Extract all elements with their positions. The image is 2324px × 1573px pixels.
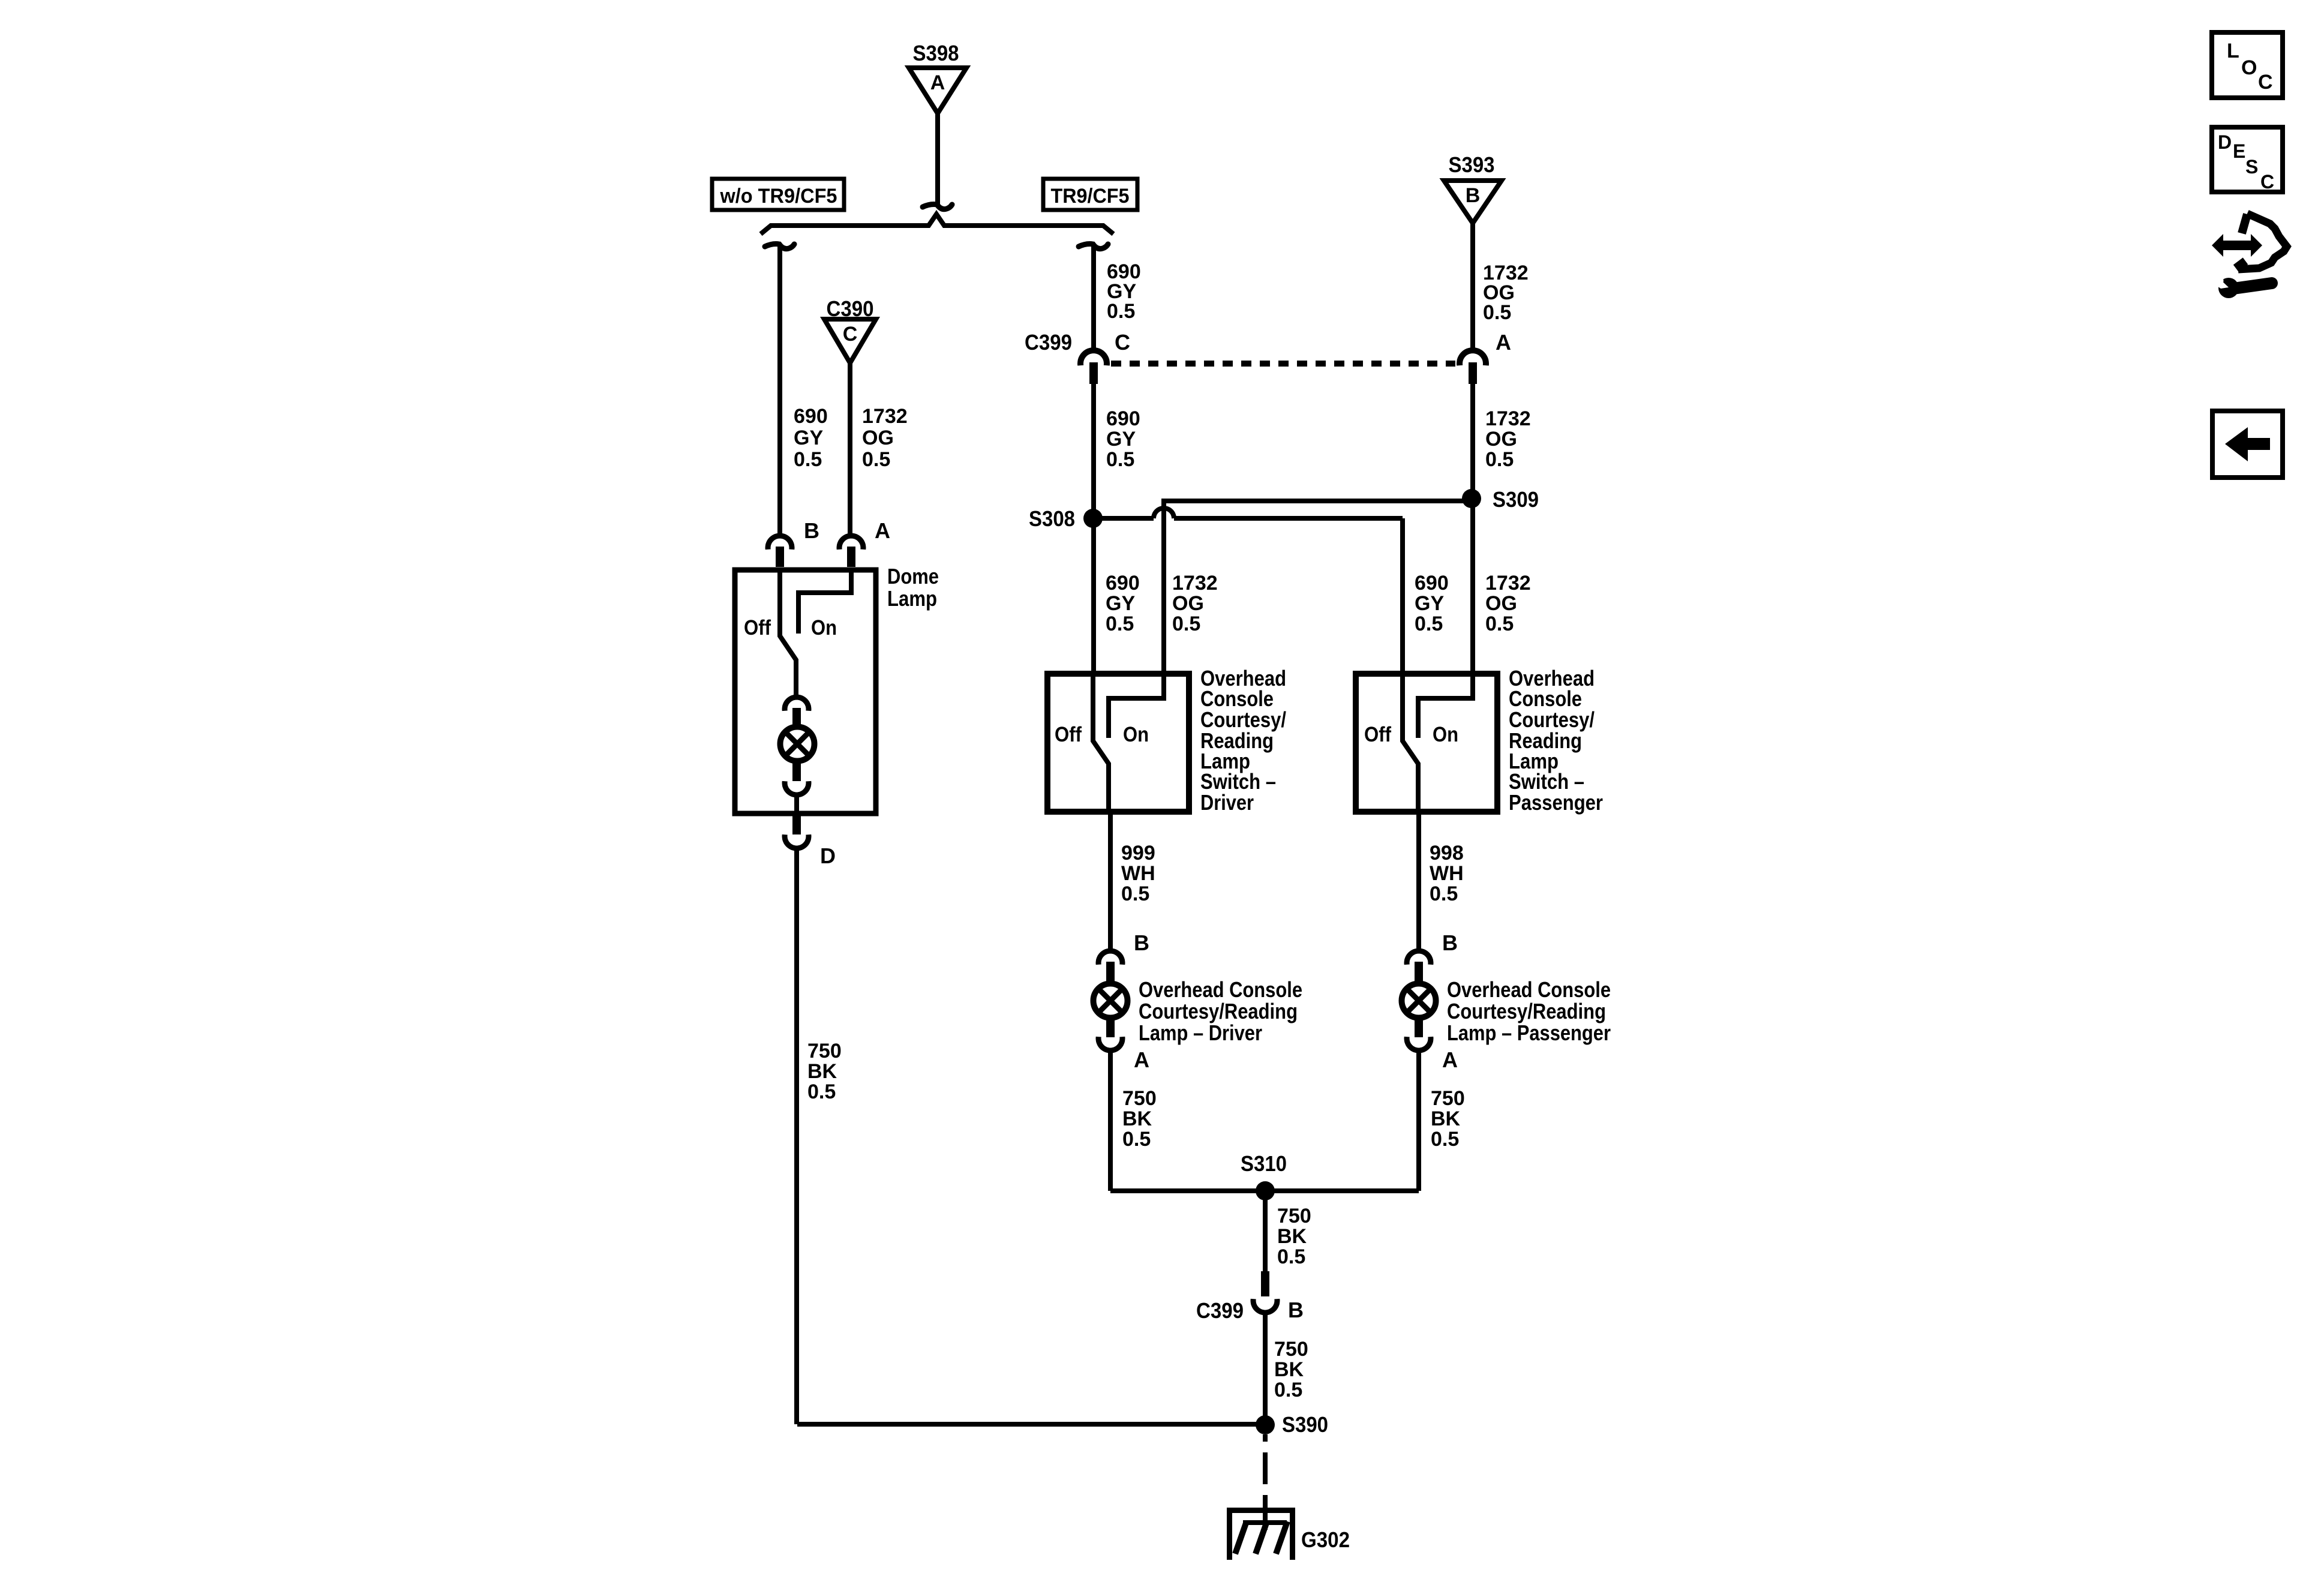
svg-text:0.5: 0.5: [1415, 613, 1443, 635]
svg-text:OG: OG: [1485, 428, 1517, 451]
svg-text:690: 690: [1415, 572, 1449, 595]
svg-text:0.5: 0.5: [794, 448, 822, 471]
svg-text:C: C: [843, 323, 858, 346]
svg-text:Off: Off: [1055, 723, 1082, 746]
svg-text:0.5: 0.5: [1485, 448, 1514, 471]
svg-text:750: 750: [1274, 1338, 1308, 1361]
svg-text:G302: G302: [1301, 1527, 1350, 1552]
svg-text:1732: 1732: [862, 405, 908, 428]
svg-text:C399: C399: [1196, 1298, 1244, 1323]
svg-text:Lamp – Passenger: Lamp – Passenger: [1447, 1020, 1611, 1045]
svg-text:GY: GY: [1106, 592, 1135, 615]
svg-text:690: 690: [1106, 572, 1140, 595]
svg-text:0.5: 0.5: [1121, 882, 1149, 905]
svg-text:On: On: [811, 616, 837, 640]
svg-text:Courtesy/Reading: Courtesy/Reading: [1447, 999, 1606, 1023]
svg-text:BK: BK: [1122, 1107, 1152, 1130]
svg-text:998: 998: [1430, 842, 1464, 864]
svg-text:C: C: [2260, 171, 2274, 193]
svg-text:C399: C399: [1025, 330, 1072, 355]
svg-text:B: B: [804, 518, 819, 543]
svg-text:1732: 1732: [1172, 572, 1218, 595]
svg-text:750: 750: [807, 1040, 842, 1062]
svg-text:Lamp – Driver: Lamp – Driver: [1139, 1020, 1262, 1045]
svg-text:OG: OG: [1485, 592, 1517, 615]
svg-text:B: B: [1288, 1298, 1304, 1322]
svg-text:Courtesy/Reading: Courtesy/Reading: [1139, 999, 1298, 1023]
svg-text:0.5: 0.5: [862, 448, 890, 471]
svg-text:S309: S309: [1493, 487, 1539, 512]
svg-text:750: 750: [1122, 1087, 1157, 1110]
svg-text:Passenger: Passenger: [1509, 790, 1603, 815]
svg-text:0.5: 0.5: [1431, 1128, 1459, 1151]
svg-text:750: 750: [1431, 1087, 1465, 1110]
svg-text:Overhead Console: Overhead Console: [1447, 977, 1611, 1002]
svg-text:GY: GY: [1106, 428, 1136, 451]
svg-text:S398: S398: [913, 41, 959, 65]
svg-text:BK: BK: [807, 1060, 837, 1083]
svg-text:0.5: 0.5: [1485, 613, 1514, 635]
svg-text:999: 999: [1121, 842, 1155, 864]
svg-text:C: C: [1115, 330, 1130, 355]
svg-text:S: S: [2245, 156, 2258, 178]
svg-text:BK: BK: [1274, 1358, 1304, 1381]
svg-text:0.5: 0.5: [807, 1080, 836, 1103]
svg-text:S390: S390: [1282, 1412, 1328, 1437]
svg-text:1732: 1732: [1485, 407, 1531, 430]
svg-text:WH: WH: [1430, 862, 1464, 885]
svg-text:A: A: [875, 518, 890, 543]
svg-text:GY: GY: [794, 427, 823, 449]
svg-text:690: 690: [1106, 407, 1140, 430]
svg-text:O: O: [2241, 56, 2257, 79]
svg-text:A: A: [1442, 1047, 1458, 1072]
svg-text:B: B: [1466, 184, 1481, 207]
svg-text:S393: S393: [1449, 152, 1495, 177]
svg-text:Lamp: Lamp: [887, 586, 937, 611]
svg-text:GY: GY: [1415, 592, 1444, 615]
svg-text:1732: 1732: [1485, 572, 1531, 595]
svg-text:0.5: 0.5: [1106, 613, 1134, 635]
svg-text:Dome: Dome: [887, 564, 939, 589]
svg-text:0.5: 0.5: [1274, 1379, 1302, 1401]
svg-text:B: B: [1442, 930, 1458, 955]
svg-text:A: A: [1496, 330, 1511, 355]
svg-text:Overhead Console: Overhead Console: [1139, 977, 1302, 1002]
svg-text:TR9/CF5: TR9/CF5: [1051, 185, 1130, 208]
svg-text:0.5: 0.5: [1277, 1245, 1305, 1268]
svg-text:Off: Off: [1364, 723, 1391, 746]
svg-text:D: D: [820, 843, 836, 868]
svg-text:L: L: [2227, 40, 2239, 62]
svg-text:BK: BK: [1277, 1225, 1307, 1248]
svg-text:On: On: [1433, 723, 1458, 746]
svg-text:WH: WH: [1121, 862, 1155, 885]
svg-text:A: A: [930, 71, 945, 94]
svg-text:0.5: 0.5: [1483, 301, 1511, 324]
svg-text:0.5: 0.5: [1122, 1128, 1151, 1151]
svg-text:E: E: [2233, 140, 2245, 162]
svg-text:690: 690: [794, 405, 828, 428]
svg-text:0.5: 0.5: [1107, 300, 1135, 323]
svg-text:On: On: [1123, 723, 1149, 746]
svg-text:C: C: [2258, 71, 2273, 94]
svg-text:B: B: [1134, 930, 1149, 955]
svg-text:0.5: 0.5: [1106, 448, 1134, 471]
svg-text:Off: Off: [744, 616, 771, 640]
svg-text:750: 750: [1277, 1205, 1311, 1227]
svg-text:0.5: 0.5: [1172, 613, 1200, 635]
svg-text:S308: S308: [1029, 506, 1075, 531]
svg-text:BK: BK: [1431, 1107, 1461, 1130]
svg-text:0.5: 0.5: [1430, 882, 1458, 905]
svg-text:OG: OG: [1172, 592, 1204, 615]
svg-text:D: D: [2218, 131, 2232, 153]
svg-text:OG: OG: [862, 427, 894, 449]
svg-text:A: A: [1134, 1047, 1149, 1072]
svg-text:Driver: Driver: [1200, 790, 1254, 815]
svg-text:S310: S310: [1241, 1151, 1287, 1176]
svg-text:w/o TR9/CF5: w/o TR9/CF5: [720, 185, 837, 208]
